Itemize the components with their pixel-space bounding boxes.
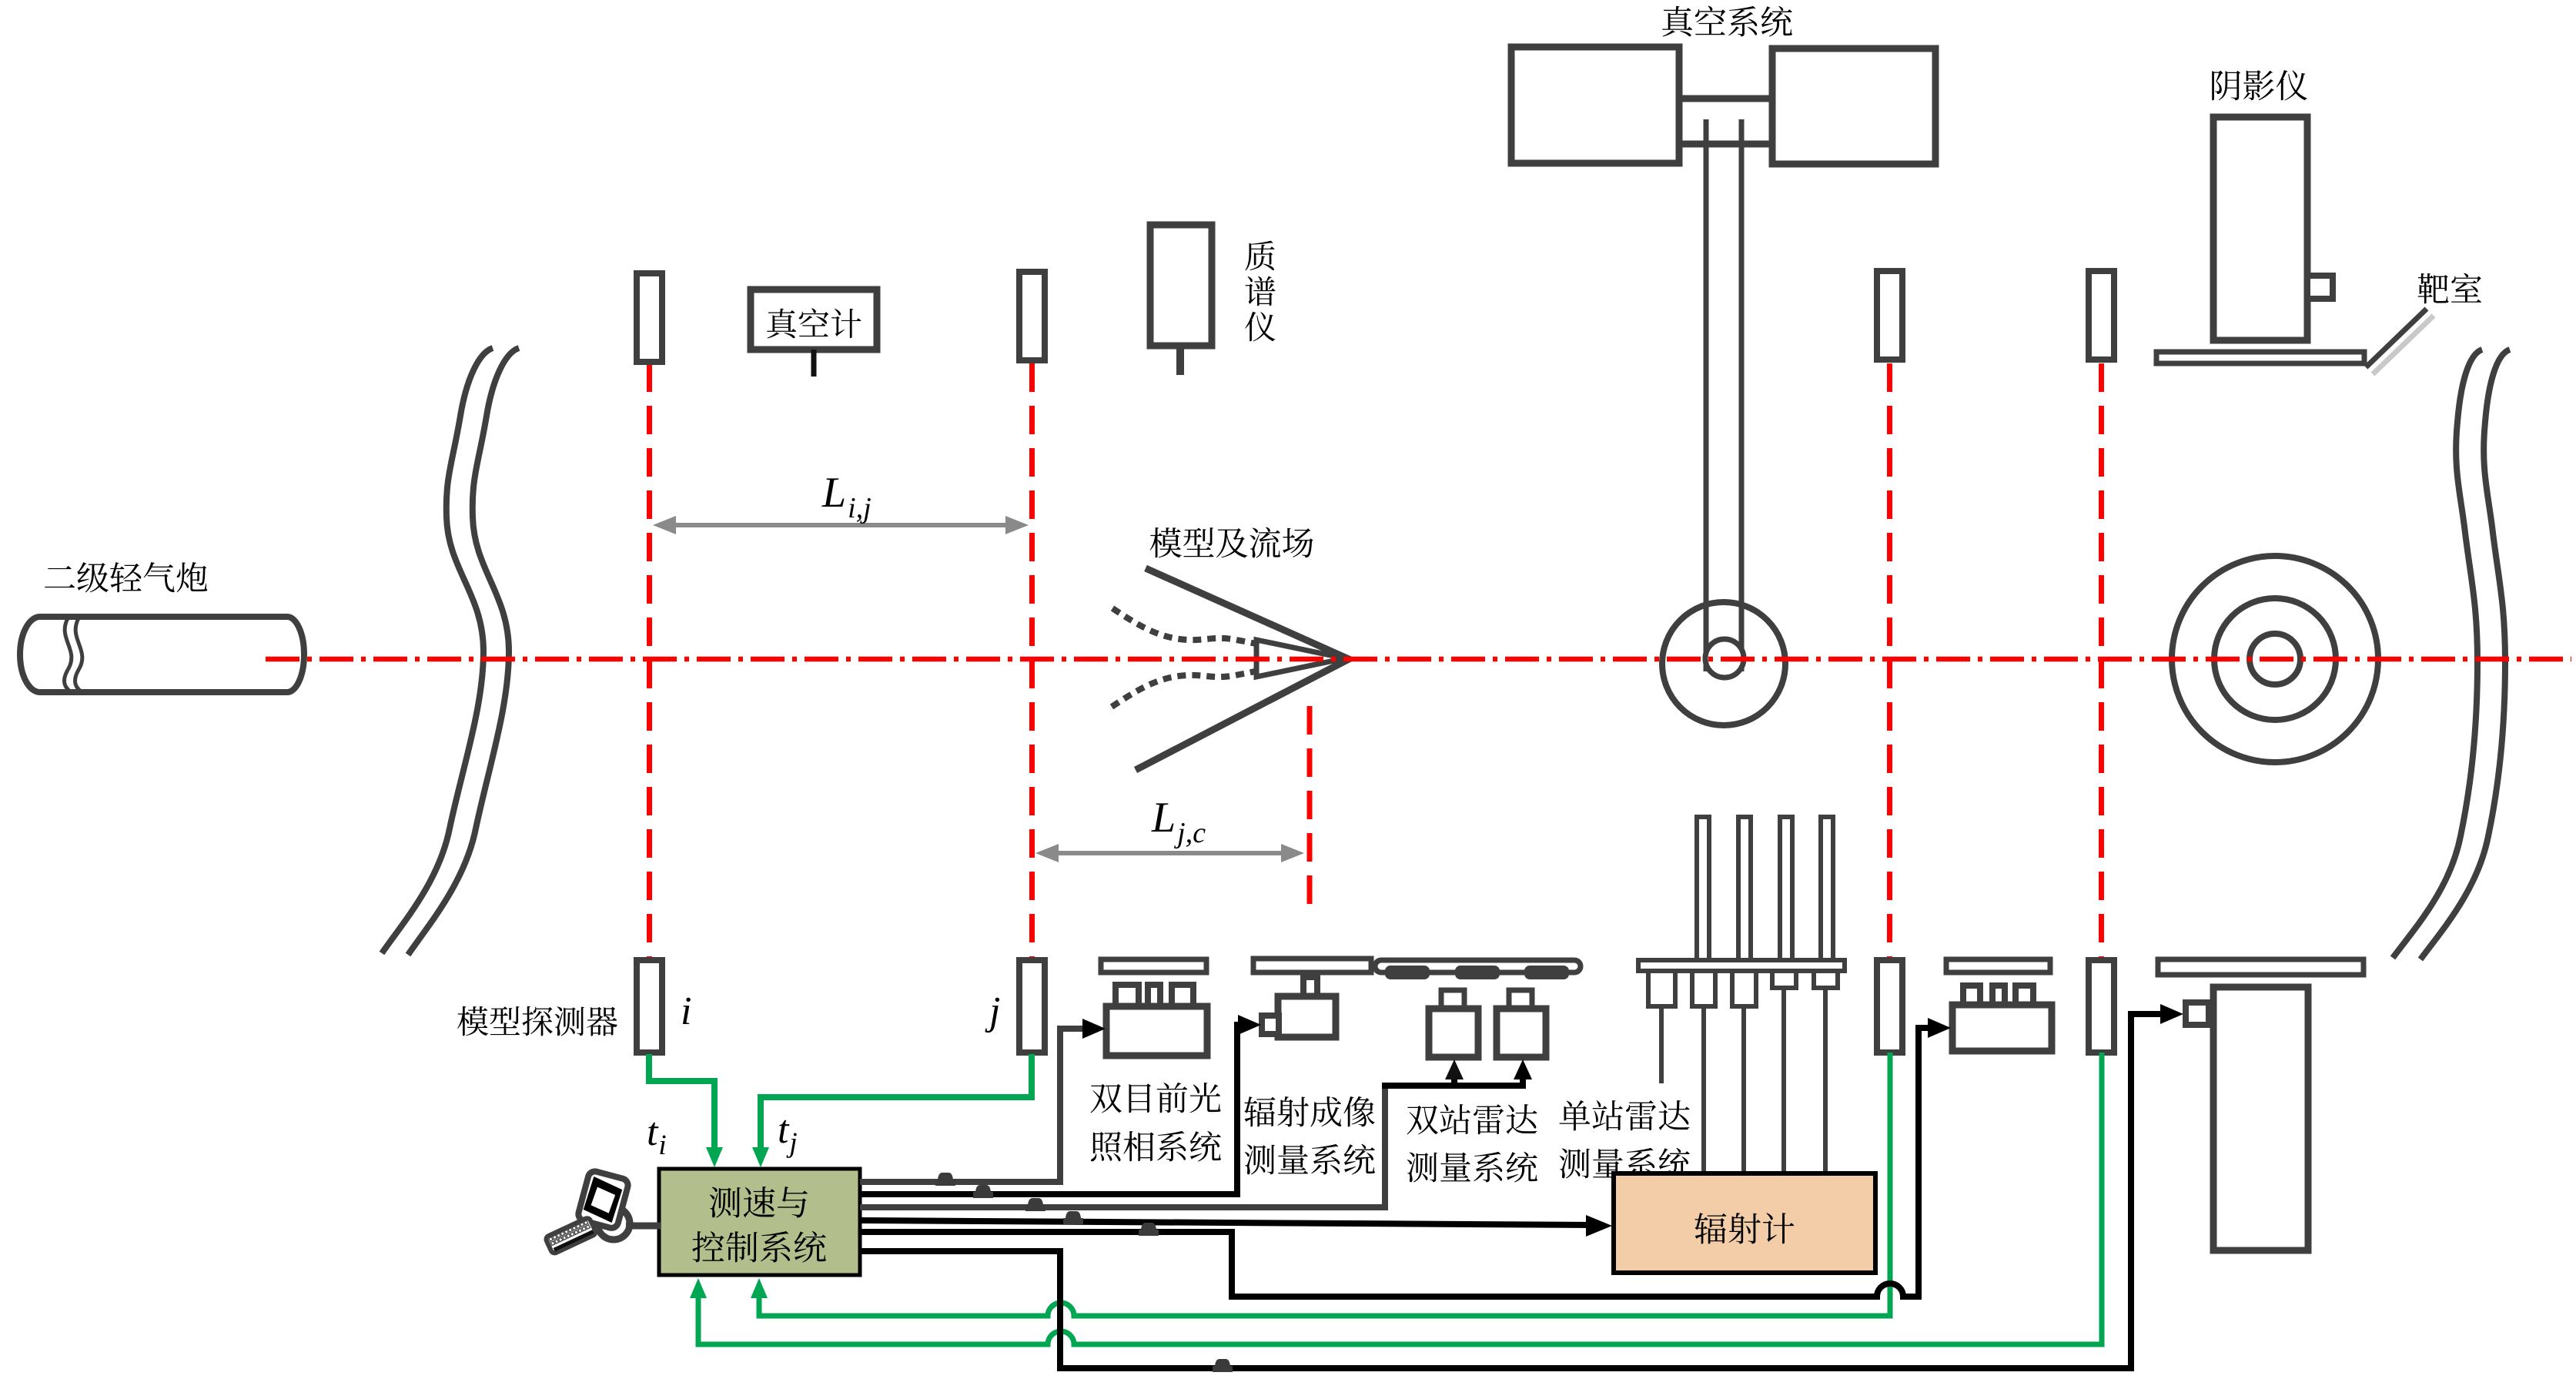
pump port circles on axis — [1662, 602, 1785, 725]
camera station 3 body — [1952, 986, 2052, 1051]
target chamber end flange circles — [2172, 556, 2378, 762]
wire w4: control to radiometer — [860, 1220, 1594, 1225]
wire w3: control to dual radar — [860, 1089, 1385, 1207]
laser detector D2 — [1019, 960, 1045, 1053]
label: mass spectrometer — [1245, 241, 1274, 271]
target chamber pointer line — [2373, 316, 2434, 374]
laser emitter E4 — [2089, 271, 2114, 360]
chamber wall break (left) — [382, 348, 519, 955]
dual radar camera B — [1509, 990, 1532, 1009]
label: gun — [45, 562, 207, 593]
wire w2: control to camera2 — [860, 1025, 1243, 1194]
antenna feed blocks — [1648, 971, 1838, 1006]
wire w5: control to camera3 — [860, 1028, 1932, 1297]
wire: detector j to control (t_j) — [761, 1054, 1032, 1152]
shadowgraph base plate — [2156, 352, 2364, 363]
label: single-station radar — [1560, 1100, 1690, 1130]
right receiver input port — [2186, 1002, 2209, 1025]
label: shadowgraph — [2212, 70, 2307, 101]
label: model detector — [457, 1006, 617, 1036]
vacuum pipes down to pump port — [1706, 119, 1741, 671]
wire: red beam stub below model (station c) — [1307, 706, 1313, 918]
camera station 2 top bar — [1253, 959, 1371, 972]
node label i — [683, 998, 691, 1024]
velocity & control system box — [659, 1169, 860, 1275]
camera station 1 body — [1106, 985, 1207, 1056]
laser emitter E2 — [1019, 272, 1045, 360]
wire: red dash-dot axis centerline — [266, 657, 2571, 662]
vacuum gauge sign — [751, 290, 877, 350]
mass spectrometer — [1150, 225, 1212, 346]
dimension L_i,j — [667, 523, 1015, 527]
label: binocular front-light photography system — [1090, 1083, 1220, 1113]
camera station 3 top bar — [1946, 959, 2050, 972]
right receiver tall box — [2213, 987, 2308, 1250]
node label j — [985, 998, 999, 1033]
camera station 1 top bar — [1101, 959, 1206, 972]
shadowgraph body — [2213, 117, 2307, 340]
model cone — [1136, 568, 1349, 770]
chamber wall break (right) — [2393, 350, 2510, 959]
wire: green return from detector D4 — [698, 1053, 2102, 1344]
wire w6: control to right receiver — [860, 1014, 2165, 1368]
vacuum system tanks — [1511, 47, 1935, 164]
computer terminal — [545, 1170, 661, 1254]
antenna mounting bar — [1638, 960, 1845, 971]
dual radar camera A — [1441, 990, 1464, 1009]
right receiver top bar — [2158, 959, 2364, 975]
wire: red laser beam 3 — [1887, 363, 1892, 959]
wire: red laser beam i — [647, 363, 652, 959]
wire w1: control to camera1 — [860, 1029, 1086, 1182]
laser detector D3 — [1877, 960, 1902, 1053]
single-station radar antenna rods — [1697, 817, 1833, 965]
antenna feed lines to radiometer — [1661, 988, 1825, 1178]
wire: red laser beam 4 — [2099, 363, 2104, 959]
dimension L_j,c — [1049, 851, 1290, 855]
camera station 2 body — [1262, 977, 1336, 1037]
wire: green return from detector D3 — [759, 1053, 1890, 1316]
laser detector D4 — [2089, 960, 2114, 1053]
wire: detector i to control (t_i) — [649, 1054, 714, 1152]
dual radar top bar with sleeve segments — [1375, 960, 1581, 972]
label: dual-station radar — [1407, 1104, 1537, 1135]
label: vacuum system — [1662, 5, 1792, 36]
laser emitter E1 — [637, 273, 662, 362]
label: radiation imaging measurement system — [1244, 1096, 1374, 1127]
laser emitter E3 — [1877, 271, 1902, 360]
label: model & flow field — [1150, 527, 1313, 558]
radiometer box — [1614, 1173, 1875, 1273]
flow field dotted shock lines — [1112, 608, 1263, 707]
laser detector D1 — [637, 960, 662, 1053]
wire: red laser beam j — [1029, 363, 1035, 959]
two-stage light gas gun barrel — [20, 617, 304, 692]
label: target chamber — [2418, 273, 2482, 304]
